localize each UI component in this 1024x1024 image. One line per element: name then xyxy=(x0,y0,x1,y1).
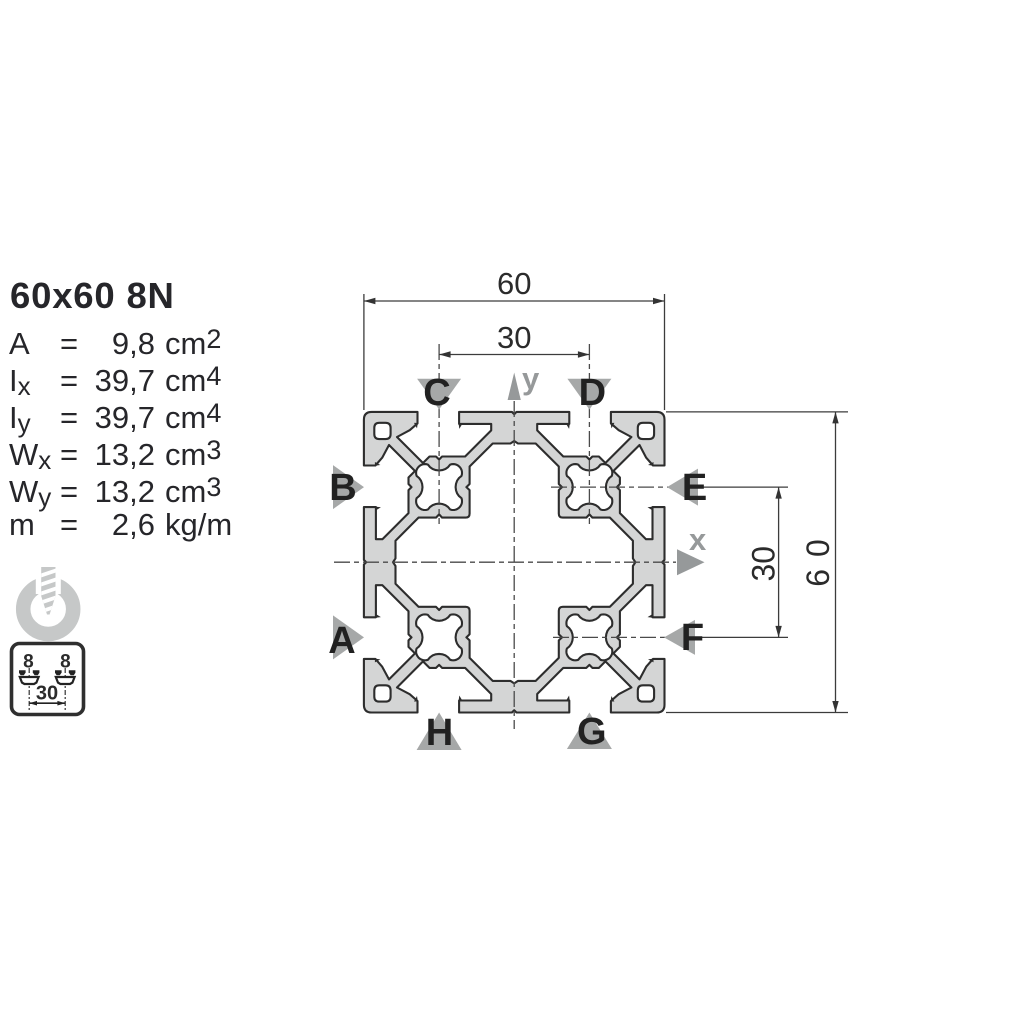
dimension 30 top (slot pitch) xyxy=(439,320,589,358)
legend dimension 30 xyxy=(29,683,65,706)
profile 60x60 cross-section xyxy=(364,412,665,713)
legend box xyxy=(8,640,98,730)
svg-text:A: A xyxy=(328,620,355,662)
property row: mass m xyxy=(9,509,232,540)
pointer triangle slot A xyxy=(333,615,364,659)
dimension 60 right (height) xyxy=(666,412,848,713)
y axis arrow xyxy=(508,373,521,401)
legend labels 8 xyxy=(23,652,71,673)
svg-text:30: 30 xyxy=(746,546,782,582)
pointer triangle slot E xyxy=(667,469,698,506)
centerline slot F xyxy=(553,636,670,638)
x axis centerline xyxy=(334,561,676,563)
svg-text:x: x xyxy=(689,522,707,557)
property row: section modulus Wy xyxy=(9,472,221,513)
property row: moment of inertia Iy xyxy=(9,398,221,439)
svg-text:G: G xyxy=(577,711,607,753)
svg-text:H: H xyxy=(426,712,453,754)
svg-text:F: F xyxy=(681,617,704,659)
centerline slot D xyxy=(588,344,590,524)
dimension 30 right (slot pitch) xyxy=(695,487,788,637)
legend box frame xyxy=(12,644,84,715)
svg-text:C: C xyxy=(423,372,450,414)
pointer triangle slot D xyxy=(567,379,611,410)
profile name title xyxy=(10,278,175,314)
slot lip retaining teeth xyxy=(375,423,654,702)
legend groove centerlines xyxy=(29,668,65,710)
svg-text:B: B xyxy=(329,467,356,509)
svg-text:E: E xyxy=(682,467,707,509)
svg-text:D: D xyxy=(579,372,606,414)
property row: section modulus Wx xyxy=(9,435,221,476)
centerline slot E xyxy=(551,486,670,488)
pointer triangle slot G xyxy=(567,713,612,750)
svg-text:60: 60 xyxy=(497,266,531,301)
ring of self-tapping icon xyxy=(23,584,73,634)
dimension 60 top (width) xyxy=(364,266,665,410)
svg-text:30: 30 xyxy=(497,320,531,355)
screw icon xyxy=(0,555,110,665)
pointer triangle slot H xyxy=(417,713,462,751)
property row: moment of inertia Ix xyxy=(9,361,221,402)
pointer triangle slot B xyxy=(333,465,364,509)
x axis arrow xyxy=(677,549,705,575)
pointer triangle slot F xyxy=(664,620,695,655)
pointer triangle slot C xyxy=(417,379,461,410)
screw of self-tapping icon xyxy=(39,567,58,615)
y axis centerline xyxy=(513,401,515,729)
centerline slot C xyxy=(438,344,440,524)
legend groove symbols xyxy=(19,670,75,684)
svg-text:y: y xyxy=(522,361,540,396)
property row: area A xyxy=(9,324,221,359)
svg-text:60: 60 xyxy=(800,527,836,587)
